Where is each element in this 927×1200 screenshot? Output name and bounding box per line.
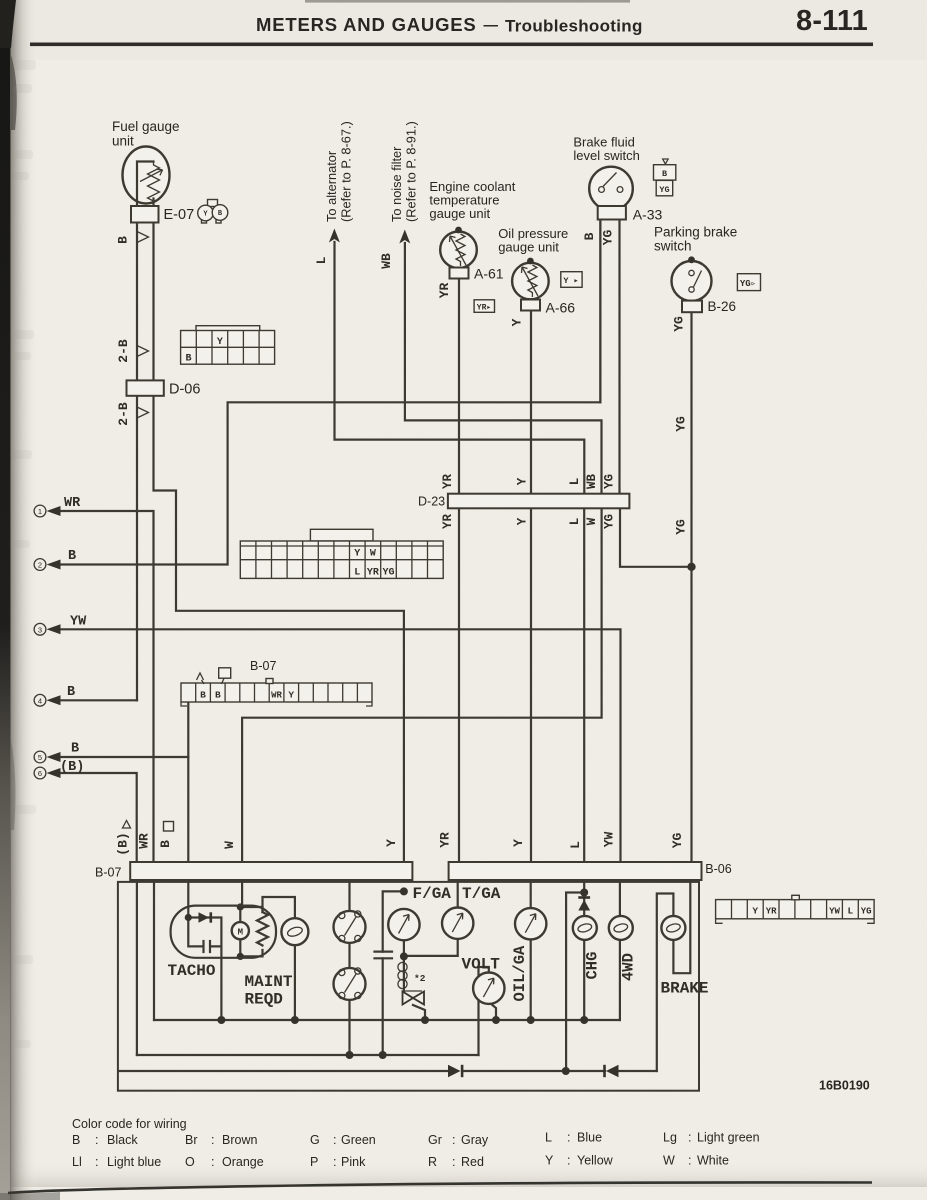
svg-text:L: L (568, 841, 583, 849)
svg-text::: : (567, 1154, 570, 1168)
svg-text:Orange: Orange (222, 1155, 264, 1169)
svg-text:METERS AND GAUGES: METERS AND GAUGES (256, 14, 477, 35)
svg-text:Gray: Gray (461, 1133, 489, 1147)
svg-text:To alternator: To alternator (324, 150, 339, 222)
svg-text:Y: Y (384, 839, 399, 847)
svg-text:Y: Y (752, 906, 758, 917)
svg-text:level switch: level switch (573, 148, 639, 163)
svg-text:YG: YG (659, 185, 669, 195)
svg-text:(B): (B) (60, 760, 84, 775)
svg-text:YW: YW (829, 907, 840, 917)
svg-text:L: L (545, 1131, 552, 1145)
svg-text:B: B (68, 549, 76, 564)
svg-text:B: B (67, 685, 75, 700)
svg-text:YG▹: YG▹ (740, 279, 756, 289)
svg-text:YR: YR (441, 514, 455, 530)
svg-text:BRAKE: BRAKE (661, 980, 709, 998)
svg-text:—: — (484, 18, 499, 34)
svg-text:OIL/GA: OIL/GA (511, 945, 529, 1002)
svg-text:(Refer to P. 8-67.): (Refer to P. 8-67.) (339, 121, 354, 222)
svg-text::: : (333, 1133, 336, 1147)
svg-text:16B0190: 16B0190 (819, 1079, 870, 1093)
svg-text:Y: Y (516, 517, 530, 525)
svg-text:Yellow: Yellow (577, 1154, 614, 1168)
svg-text:Y: Y (545, 1154, 554, 1168)
svg-text:B: B (662, 169, 667, 179)
svg-text:5: 5 (38, 753, 42, 762)
svg-text:O: O (185, 1155, 195, 1169)
svg-text:YG: YG (603, 474, 617, 489)
svg-text:YR: YR (766, 907, 777, 917)
svg-text:Y: Y (217, 337, 223, 348)
svg-text:WR: WR (137, 833, 152, 849)
svg-text:R: R (428, 1155, 437, 1169)
svg-text:gauge unit: gauge unit (498, 240, 559, 255)
svg-text:YG: YG (861, 907, 872, 917)
svg-text:MAINT: MAINT (245, 973, 293, 991)
svg-text:Y: Y (511, 839, 526, 847)
svg-text:8-111: 8-111 (796, 5, 868, 37)
svg-text:Y: Y (516, 477, 530, 485)
svg-text:Y: Y (510, 318, 525, 326)
svg-text:B: B (582, 232, 597, 240)
svg-text:A-61: A-61 (474, 266, 504, 282)
svg-text:Gr: Gr (428, 1133, 442, 1147)
svg-text:YR▸: YR▸ (477, 303, 491, 312)
svg-text:YW: YW (602, 832, 617, 848)
svg-text:Fuel gauge: Fuel gauge (112, 119, 180, 134)
svg-text:B: B (200, 690, 206, 701)
svg-text:YG: YG (601, 230, 616, 246)
svg-text:Y: Y (288, 690, 294, 701)
svg-text:B: B (71, 742, 79, 757)
svg-text:T/GA: T/GA (462, 885, 501, 903)
svg-text:YW: YW (70, 615, 87, 630)
svg-text:2: 2 (38, 561, 42, 570)
svg-text:Blue: Blue (577, 1131, 602, 1145)
svg-text:YG: YG (674, 519, 689, 535)
svg-text:(Refer to P. 8-91.): (Refer to P. 8-91.) (404, 121, 419, 222)
svg-text::: : (452, 1133, 455, 1147)
svg-text:YG: YG (674, 416, 689, 432)
svg-text:YG: YG (672, 316, 687, 332)
svg-text:2-B: 2-B (116, 402, 131, 426)
svg-text:Parking brake: Parking brake (654, 225, 737, 240)
svg-text:Green: Green (341, 1133, 376, 1147)
svg-text:YG: YG (603, 514, 617, 529)
svg-text:Lg: Lg (663, 1131, 677, 1145)
svg-text:TACHO: TACHO (168, 962, 216, 980)
svg-text:WB: WB (585, 474, 599, 490)
svg-text:D-06: D-06 (169, 382, 200, 398)
svg-text:B: B (215, 690, 221, 701)
svg-text:REQD: REQD (245, 991, 283, 1009)
svg-text:Light green: Light green (697, 1131, 760, 1145)
svg-text:Y ▸: Y ▸ (563, 276, 578, 286)
svg-text:Ll: Ll (72, 1155, 82, 1169)
svg-text:W: W (585, 517, 599, 525)
svg-text:B: B (72, 1133, 80, 1147)
svg-text:D-23: D-23 (418, 495, 445, 509)
svg-text::: : (688, 1154, 691, 1168)
svg-text:WR: WR (64, 496, 81, 511)
svg-text:6: 6 (38, 769, 42, 778)
svg-text:G: G (310, 1133, 320, 1147)
svg-text:Br: Br (185, 1133, 198, 1147)
svg-text:P: P (310, 1155, 318, 1169)
svg-text:WB: WB (379, 253, 394, 269)
svg-text:W: W (663, 1154, 675, 1168)
svg-text:Troubleshooting: Troubleshooting (505, 17, 643, 36)
svg-text:B: B (185, 354, 191, 365)
svg-text:W: W (222, 841, 237, 849)
svg-text:VOLT: VOLT (462, 956, 501, 974)
svg-text:4WD: 4WD (620, 953, 638, 981)
svg-text:L: L (354, 568, 360, 579)
svg-text:4: 4 (38, 696, 42, 705)
svg-text:W: W (370, 549, 376, 560)
svg-text:To noise filter: To noise filter (389, 146, 404, 222)
svg-text:(B): (B) (116, 832, 131, 855)
svg-text:YG: YG (382, 568, 394, 579)
svg-text:YG: YG (670, 833, 685, 849)
svg-text:Color code for wiring: Color code for wiring (72, 1117, 187, 1131)
svg-text:*2: *2 (414, 973, 426, 984)
svg-text:1: 1 (38, 507, 42, 516)
svg-text:F/GA: F/GA (413, 885, 452, 903)
svg-text:B-06: B-06 (705, 862, 731, 876)
svg-text:Pink: Pink (341, 1155, 366, 1169)
svg-text::: : (333, 1155, 336, 1169)
svg-text::: : (95, 1155, 98, 1169)
svg-text:gauge unit: gauge unit (429, 206, 490, 221)
svg-text:YR: YR (441, 474, 455, 490)
svg-text:Brown: Brown (222, 1133, 257, 1147)
svg-text:E-07: E-07 (164, 207, 195, 223)
svg-text:B-26: B-26 (708, 299, 737, 314)
svg-text:3: 3 (38, 625, 42, 634)
svg-text:L: L (847, 906, 853, 917)
svg-text:switch: switch (654, 239, 692, 254)
svg-text:White: White (697, 1154, 729, 1168)
svg-text::: : (688, 1131, 691, 1145)
svg-text:B-07: B-07 (250, 659, 276, 673)
svg-text:YR: YR (437, 283, 452, 299)
svg-text:YR: YR (438, 832, 453, 848)
svg-text:B-07: B-07 (95, 866, 121, 880)
svg-text::: : (211, 1155, 214, 1169)
svg-text::: : (211, 1133, 214, 1147)
svg-text:Y: Y (354, 549, 360, 560)
svg-text:Red: Red (461, 1155, 484, 1169)
svg-text:Light blue: Light blue (107, 1155, 161, 1169)
svg-text:Black: Black (107, 1133, 138, 1147)
svg-text:A-33: A-33 (633, 207, 663, 223)
svg-text:CHG: CHG (584, 952, 602, 980)
svg-text:M: M (238, 927, 243, 937)
svg-text::: : (95, 1133, 98, 1147)
svg-text::: : (567, 1131, 570, 1145)
svg-text:WR: WR (271, 691, 282, 701)
svg-text:A-66: A-66 (546, 300, 576, 316)
svg-text:2-B: 2-B (116, 339, 131, 363)
svg-text:L: L (314, 256, 329, 264)
svg-text:unit: unit (112, 134, 134, 149)
svg-text:L: L (568, 518, 582, 526)
svg-text:YR: YR (367, 568, 379, 579)
svg-text::: : (452, 1155, 455, 1169)
svg-text:B: B (158, 840, 173, 848)
svg-text:L: L (568, 478, 582, 486)
svg-text:B: B (116, 236, 131, 244)
